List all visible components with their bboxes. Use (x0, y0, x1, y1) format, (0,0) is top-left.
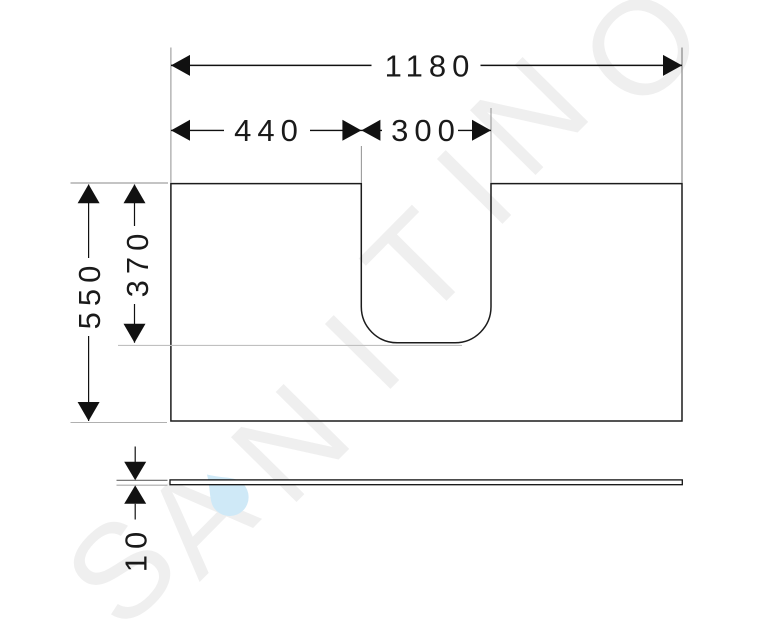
extension line horizontal plate-bottom (y=422.5) (71, 422, 168, 424)
svg-text:10: 10 (119, 526, 154, 572)
svg-text:440: 440 (234, 113, 304, 148)
dimension 1180 arrow left (171, 55, 190, 76)
dimension 550 arrow down (78, 402, 100, 421)
extension line horizontal bar-top (y=480.5) (117, 479, 168, 481)
extension line horizontal cutout-bottom (y=345) (118, 344, 462, 346)
extension line horizontal bar-bottom (y=485) (117, 484, 168, 486)
dimension 440 arrow left (171, 120, 190, 141)
dimension 370 arrow up (124, 184, 146, 203)
dimension 10 lower line (134, 504, 136, 520)
svg-text:370: 370 (120, 228, 155, 298)
dimension 370 line (134, 185, 136, 343)
dimension 10 upper line (134, 447, 136, 463)
dimension 550 arrow up (78, 184, 100, 203)
side view thin plate bar (170, 480, 682, 485)
svg-text:1180: 1180 (385, 49, 476, 84)
extension line horizontal top-left (y=183) (71, 182, 169, 184)
dimension 300 arrow left (bowtie) (361, 120, 380, 141)
dimension 300 arrow right (472, 120, 491, 141)
dimension 440/300 line (171, 129, 491, 131)
dimension 10 arrow up (124, 485, 146, 503)
dimension 370 arrow down (124, 324, 146, 343)
dimension 10 arrow down (124, 462, 146, 480)
dimension 550 line (88, 185, 90, 422)
dimension 1180 line (171, 64, 682, 66)
watermark blue water drop (194, 461, 257, 524)
svg-text:550: 550 (72, 260, 107, 330)
extension line vertical cutout-right (x=490) (490, 108, 492, 183)
svg-text:300: 300 (391, 113, 461, 148)
plate outline (top view with U cutout) (171, 184, 682, 421)
extension line vertical right (x=682) (681, 48, 683, 184)
dimension 1180 arrow right (663, 55, 682, 76)
extension line vertical cutout-left (x=361) (360, 146, 362, 183)
extension line vertical left (x=171) (170, 48, 172, 184)
dimension 440 arrow right (bowtie) (342, 120, 361, 141)
